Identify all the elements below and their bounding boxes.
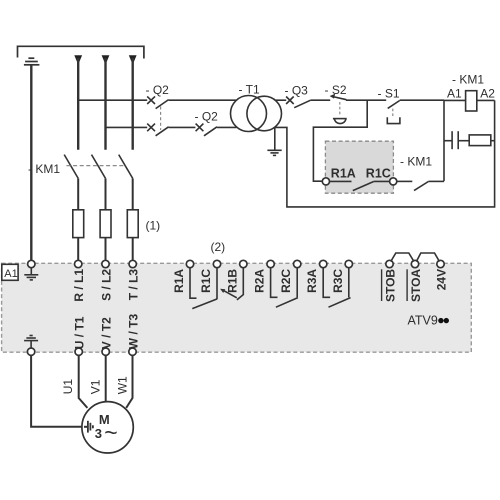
wire R3C <box>348 268 350 298</box>
svg-text:R1B: R1B <box>225 269 239 293</box>
ground (T1 secondary) <box>267 127 281 155</box>
wire coil to A2 drop <box>477 99 495 101</box>
terminal R1A <box>186 260 193 267</box>
wire R1B with foot <box>237 268 243 300</box>
wire R1C <box>216 268 218 299</box>
svg-text:STOA: STOA <box>409 269 423 302</box>
svg-text:R3A: R3A <box>305 269 319 293</box>
svg-text:R2A: R2A <box>253 269 267 293</box>
terminal V/T2 <box>102 348 109 355</box>
terminal R3C <box>345 260 352 267</box>
wire V to motor <box>105 355 107 401</box>
relay R1 NC blade with arrow <box>223 290 237 298</box>
motor M <box>82 402 133 453</box>
svg-text:3: 3 <box>95 426 102 441</box>
pushbutton S1 (NO start) <box>387 100 444 123</box>
terminal S/L2 <box>102 260 109 267</box>
terminal STOB <box>386 260 393 267</box>
wire T1 secondary bottom + return loop <box>274 100 494 206</box>
wire branch junction to interlock R1A <box>313 100 367 181</box>
contactor KM1 pole 2 <box>92 155 106 179</box>
terminal R2C <box>294 260 301 267</box>
KM1 mechanical link (dashed) <box>67 165 127 167</box>
transformer T1 <box>231 96 267 132</box>
pushbutton S2 (NC stop, mushroom) <box>330 94 387 124</box>
terminal PE top circle <box>28 260 35 267</box>
relay R3 NO blade <box>329 298 351 308</box>
wire A1 junction vertical <box>443 100 445 181</box>
wire R1A <box>190 268 197 298</box>
svg-text:A1: A1 <box>4 268 17 280</box>
svg-text:(1): (1) <box>146 219 161 233</box>
contact R1A-R1C (NO) <box>330 181 390 190</box>
terminal PE bottom circle <box>27 348 34 355</box>
svg-text:R / L1: R / L1 <box>72 269 86 302</box>
wire PE to motor frame <box>31 355 84 426</box>
wire R3A <box>323 268 330 298</box>
svg-text:- KM1: - KM1 <box>28 162 60 176</box>
contact KM1 auxiliary (NO) <box>397 181 444 190</box>
wire pole2 to choke <box>105 178 107 209</box>
svg-text:- S2: - S2 <box>325 83 347 97</box>
contactor KM1 pole 1 <box>64 155 78 179</box>
wire tap phase1 to Q2 pole1 <box>78 99 147 101</box>
terminal U/T1 <box>75 348 82 355</box>
ground symbol inside box (bottom, inverted) <box>24 336 38 349</box>
wire R2C <box>296 268 298 298</box>
svg-text:- KM1: - KM1 <box>400 155 432 169</box>
svg-text:R1A: R1A <box>331 167 356 181</box>
wire W to motor <box>126 355 132 408</box>
svg-text:R1C: R1C <box>199 269 213 293</box>
overline STOA <box>406 269 408 301</box>
wire pole1 to choke <box>77 178 79 209</box>
wire T1 secondary top to Q3 <box>275 99 286 101</box>
breaker Q2 pole 2 (x mark + blade) <box>147 124 195 136</box>
breaker Q2 pole 1 (x mark + blade) <box>147 96 236 108</box>
svg-text:- KM1: - KM1 <box>452 73 484 87</box>
terminal STOA <box>411 260 418 267</box>
terminal W/T3 <box>129 348 136 355</box>
terminal R/L1 <box>75 260 82 267</box>
overline STOB <box>381 269 383 301</box>
svg-text:R2C: R2C <box>279 269 293 293</box>
svg-text:V1: V1 <box>89 379 103 394</box>
wire choke1 to terminal R/L1 <box>77 238 79 261</box>
svg-text:STOB: STOB <box>384 269 398 302</box>
motor chassis ground <box>84 421 93 433</box>
terminal R1C circle <box>390 178 397 185</box>
svg-text:V / T2: V / T2 <box>100 317 114 349</box>
wire pole3 to choke <box>132 178 134 209</box>
svg-text:U / T1: U / T1 <box>73 316 87 349</box>
wire choke2 to terminal S/L2 <box>105 238 107 261</box>
svg-text:A1: A1 <box>447 87 462 101</box>
earth symbol (supply PE, inverted) <box>24 58 40 65</box>
wire tap phase2 to Q2 pole2 <box>106 126 148 128</box>
wire resistor to A2 drop <box>491 140 495 142</box>
wire choke3 to terminal T/L3 <box>132 238 134 261</box>
contactor KM1 pole 3 <box>119 155 133 179</box>
terminal R1A circle <box>322 178 329 185</box>
choke/fuse rectangle 1 <box>73 210 84 238</box>
svg-text:~: ~ <box>104 419 117 445</box>
choke/fuse rectangle 3 <box>127 210 138 238</box>
svg-text:U1: U1 <box>61 379 75 395</box>
wire PE down to drive ground terminal <box>30 65 32 261</box>
Q2 mechanical link (dashed) <box>160 107 162 131</box>
coil KM1 <box>466 91 477 111</box>
terminal 24V <box>437 260 444 267</box>
terminal R1C <box>213 260 220 267</box>
breaker Q3 <box>286 97 330 108</box>
breaker Q2 second device on lower tap <box>196 124 237 136</box>
svg-text:W1: W1 <box>115 376 129 394</box>
svg-text:R1C: R1C <box>366 167 391 181</box>
wire U to motor <box>79 355 88 408</box>
svg-text:R3C: R3C <box>331 269 345 293</box>
phase L1 arrow <box>74 55 82 64</box>
svg-text:ATV9: ATV9 <box>408 314 438 328</box>
svg-text:- T1: - T1 <box>239 83 260 97</box>
svg-text:W / T3: W / T3 <box>127 314 141 350</box>
phase L2 arrow <box>102 55 110 64</box>
wire S1 to coil <box>444 99 466 101</box>
svg-text:- S1: - S1 <box>378 87 400 101</box>
resistor (RC snubber) <box>469 135 491 146</box>
label box A1 <box>2 264 18 280</box>
terminal R2A <box>267 260 274 267</box>
svg-text:- Q3: - Q3 <box>285 84 309 98</box>
svg-text:24V: 24V <box>435 269 449 290</box>
supply busbar bracket <box>18 46 144 58</box>
terminal R1B <box>240 260 247 267</box>
wire phase L2 drop <box>104 58 106 150</box>
terminal R3A <box>320 260 327 267</box>
jumper STOB-STOA <box>391 253 414 262</box>
drive enclosure A1 (shaded dashed box) <box>2 263 472 352</box>
svg-text:A2: A2 <box>480 87 495 101</box>
relay R1 NO blade <box>192 299 217 309</box>
capacitor (RC snubber) <box>444 131 469 149</box>
terminal T/L3 <box>129 260 136 267</box>
svg-text:- Q2: - Q2 <box>195 110 219 124</box>
interlock terminals box (shaded) <box>325 141 393 193</box>
ground symbol inside box (top) <box>24 268 38 280</box>
svg-text:(2): (2) <box>211 240 226 254</box>
wire R2A <box>271 268 278 298</box>
svg-text:T / L3: T / L3 <box>127 269 141 301</box>
svg-text:- Q2: - Q2 <box>146 83 170 97</box>
phase L3 arrow <box>129 55 137 64</box>
svg-text:S / L2: S / L2 <box>100 269 114 301</box>
wire phase L3 drop <box>131 58 133 150</box>
jumper STOA-24V <box>416 253 439 262</box>
svg-text:R1A: R1A <box>172 269 186 293</box>
wire phase L1 drop <box>77 58 79 150</box>
relay R2 NO blade <box>276 298 298 308</box>
choke/fuse rectangle 2 <box>100 210 111 238</box>
